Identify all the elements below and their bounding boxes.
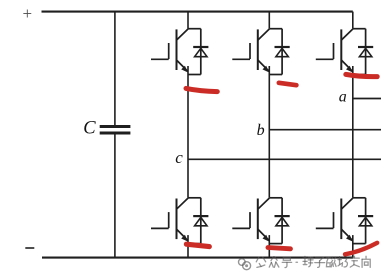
wire: leg 3 emitter to negative rail [352,235,354,258]
- terminal label [25,247,34,249]
wire: phase a output line [353,98,381,100]
transistor Q1 (IGBT) [151,29,188,73]
svg-text:a: a [339,89,347,106]
svg-text:C: C [83,119,96,139]
annotation: red mark leg1 upper emitter [186,88,217,91]
transistor Q2 (IGBT) [316,198,353,242]
transistor Q4 (IGBT) [151,198,188,242]
capacitor C [100,125,131,135]
diode D2 (antiparallel) [353,198,373,244]
wire: leg 1 midpoint vertical [187,66,189,198]
watermark logo icon [239,259,251,270]
diode D6 (antiparallel) [269,198,289,244]
transistor Q5 (IGBT) [316,29,353,73]
wire: phase c output line [188,158,381,160]
wire: leg 3 midpoint vertical [352,66,354,198]
diode D4 (antiparallel) [188,198,208,244]
wire: leg 1 emitter to negative rail [187,235,189,258]
wire: phase b output line [269,129,381,131]
annotation: red mark leg2 upper emitter [279,83,297,85]
transistor Q3 (IGBT) [232,29,269,73]
wire: leg 2 midpoint vertical [268,66,270,198]
svg-text:+: + [23,4,33,23]
annotation: red mark leg3 upper emitter [346,74,377,76]
wire: leg 1 collector stub from positive rail [187,12,189,29]
diode D3 (antiparallel) [269,29,289,75]
wire: positive DC bus rail [42,11,353,13]
wire: capacitor bottom lead [114,135,116,258]
svg-text:b: b [257,122,265,139]
transistor Q6 (IGBT) [232,198,269,242]
wire: negative DC bus rail [42,257,353,259]
wire: capacitor top lead [114,12,116,126]
annotation: red mark leg1 lower emitter [186,244,209,246]
diode D1 (antiparallel) [188,29,208,75]
annotation: red mark leg3 lower curve [345,243,377,255]
wire: leg 2 collector stub from positive rail [268,12,270,29]
wire: leg 2 emitter to negative rail [268,235,270,258]
wire: leg 3 collector stub from positive rail [352,12,354,29]
diode D5 (antiparallel) [353,29,373,75]
watermark text 公众号·转子磁场定向 (stroke approximation) [256,256,370,267]
annotation: red mark leg2 lower emitter [268,248,291,249]
svg-text:c: c [175,148,183,167]
